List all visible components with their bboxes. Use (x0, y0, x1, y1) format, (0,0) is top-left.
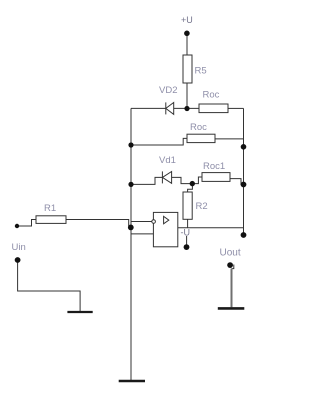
svg-text:R5: R5 (195, 66, 207, 77)
svg-text:+U: +U (181, 15, 193, 25)
svg-text:VD2: VD2 (159, 85, 177, 96)
svg-text:R2: R2 (196, 201, 208, 212)
svg-text:Vd1: Vd1 (159, 155, 176, 166)
svg-text:R1: R1 (44, 203, 56, 214)
svg-text:-U: -U (181, 228, 191, 238)
svg-text:Uout: Uout (220, 248, 241, 259)
svg-text:Roc: Roc (190, 122, 207, 133)
svg-text:Uin: Uin (12, 242, 26, 253)
svg-text:Roc: Roc (203, 90, 220, 101)
svg-text:Roc1: Roc1 (203, 161, 225, 172)
